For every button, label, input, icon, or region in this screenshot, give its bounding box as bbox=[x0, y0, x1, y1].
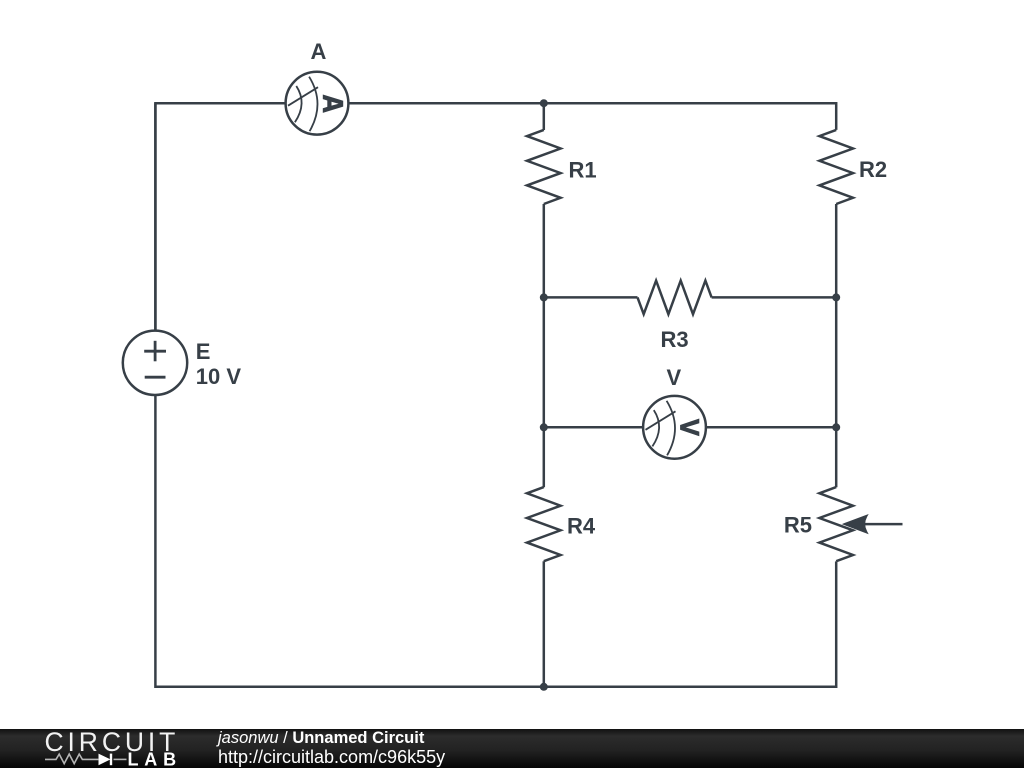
voltmeter V circle bbox=[643, 396, 706, 459]
wire ammeter to top-right corner down to R2 bbox=[348, 103, 836, 130]
node junction V-right bbox=[832, 423, 840, 431]
wire mid rail R4 to bottom node bbox=[543, 561, 546, 687]
potentiometer R5 wiper arrow bbox=[845, 516, 902, 532]
wire R3 row right segment bbox=[712, 296, 837, 299]
svg-text:LAB: LAB bbox=[128, 750, 182, 769]
wire left rail below source to bottom-right corner bbox=[155, 395, 836, 687]
wire R3 row left segment bbox=[544, 296, 638, 299]
node junction R3-left bbox=[540, 293, 548, 301]
node junction V-left bbox=[540, 423, 548, 431]
footer bar bbox=[0, 729, 1024, 768]
svg-text:R2: R2 bbox=[859, 157, 887, 182]
resistor R2 bbox=[819, 130, 853, 204]
resistor R4 bbox=[527, 487, 561, 561]
wire mid rail R1 to R4 bbox=[543, 204, 546, 487]
ammeter letter A (rotated) bbox=[323, 95, 343, 113]
svg-text:A: A bbox=[311, 39, 327, 64]
svg-text:R3: R3 bbox=[660, 327, 688, 352]
resistor R1 bbox=[527, 130, 561, 204]
node junction R3-right bbox=[832, 293, 840, 301]
voltage source plus sign bbox=[144, 341, 166, 362]
resistor R3 bbox=[638, 281, 712, 315]
voltmeter letter V (rotated) bbox=[680, 419, 699, 437]
svg-text:10 V: 10 V bbox=[196, 364, 242, 389]
voltmeter meter arcs bbox=[646, 401, 676, 456]
wire voltmeter row right segment bbox=[706, 426, 836, 429]
CircuitLab logo waveform with resistor and diode bbox=[45, 754, 127, 764]
voltage source minus sign bbox=[145, 376, 166, 379]
wire mid rail top node to R1 bbox=[543, 103, 546, 130]
ammeter A circle bbox=[286, 72, 349, 135]
logo diode symbol bbox=[99, 754, 111, 766]
footer title line bbox=[218, 729, 424, 748]
wire right rail R2 to R5 bbox=[835, 204, 838, 487]
wire top-left: left rail corner to ammeter bbox=[155, 103, 285, 331]
svg-text:V: V bbox=[666, 365, 681, 390]
resistor R5 bbox=[819, 487, 853, 561]
ammeter meter arcs bbox=[288, 77, 318, 132]
node junction top-mid bbox=[540, 99, 548, 107]
node junction bottom-mid bbox=[540, 683, 548, 691]
wire source top stub bbox=[154, 103, 157, 331]
voltage source E circle bbox=[123, 331, 187, 395]
svg-text:R4: R4 bbox=[567, 514, 596, 539]
svg-text:R5: R5 bbox=[784, 513, 812, 538]
svg-text:E: E bbox=[196, 339, 211, 364]
svg-text:R1: R1 bbox=[569, 157, 597, 182]
wire voltmeter row left segment bbox=[544, 426, 643, 429]
footer url line bbox=[218, 747, 445, 768]
